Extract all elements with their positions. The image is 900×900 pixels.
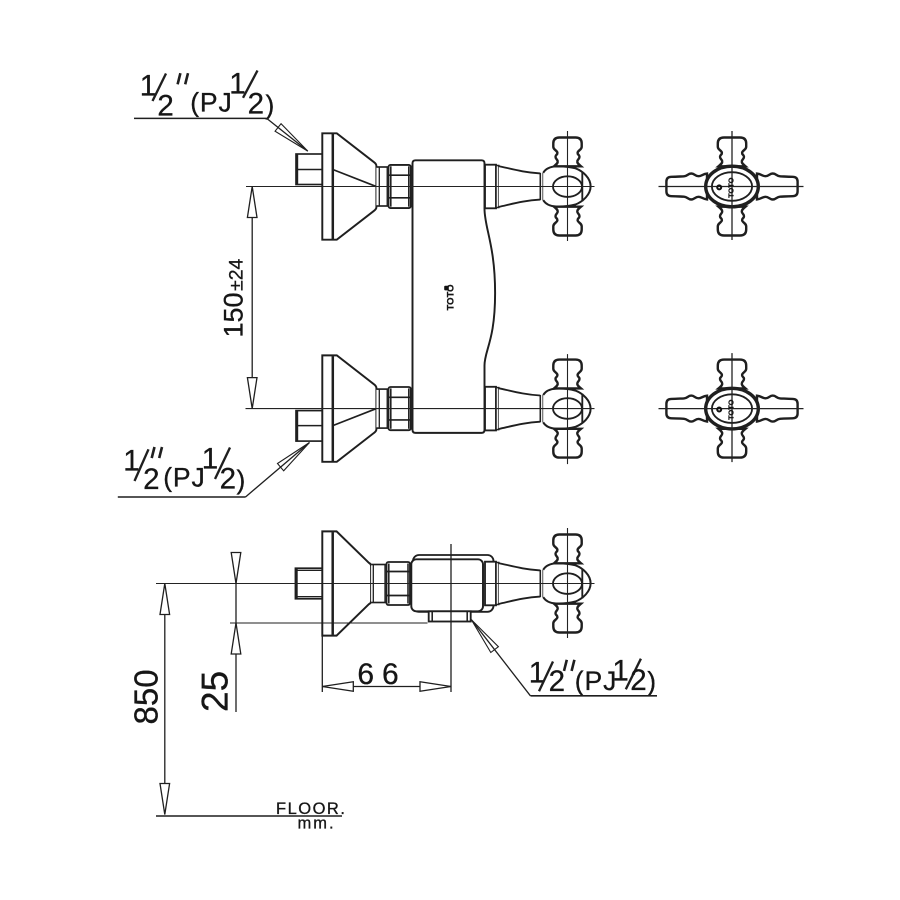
- svg-text:1: 1: [202, 442, 218, 475]
- svg-text:2: 2: [549, 665, 565, 698]
- svg-text:850: 850: [128, 669, 165, 724]
- svg-text:2: 2: [220, 462, 236, 495]
- svg-text:2: 2: [248, 88, 264, 121]
- svg-text:2: 2: [157, 89, 173, 122]
- svg-text:2: 2: [143, 463, 159, 496]
- svg-text:1: 1: [612, 655, 628, 688]
- svg-text:mm.: mm.: [298, 815, 336, 833]
- svg-text:2: 2: [630, 664, 646, 697]
- svg-text:150: 150: [218, 292, 248, 337]
- svg-text:(PJ: (PJ: [190, 88, 232, 118]
- svg-text:(PJ: (PJ: [163, 462, 205, 492]
- svg-text:±24: ±24: [225, 258, 247, 291]
- svg-text:25: 25: [195, 671, 236, 712]
- svg-text:66: 66: [357, 658, 406, 691]
- svg-text:): ): [237, 465, 246, 495]
- svg-text:): ): [266, 90, 275, 120]
- svg-text:(PJ: (PJ: [575, 666, 617, 696]
- svg-text:): ): [647, 667, 656, 697]
